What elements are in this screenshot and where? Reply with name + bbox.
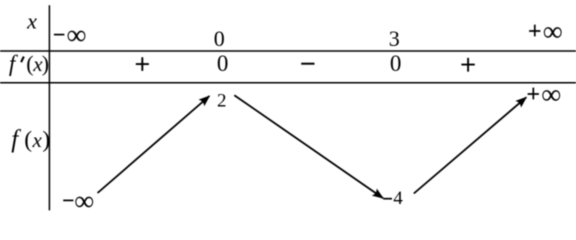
svg-text:f: f [9, 51, 19, 76]
svg-text:∞: ∞ [74, 186, 94, 215]
plus of +infinity (row 3 top right) [528, 88, 539, 100]
sign - (row 2, second interval) [301, 63, 314, 65]
svg-text:∞: ∞ [67, 20, 87, 51]
svg-text:0: 0 [217, 51, 229, 76]
label f(x) (row 3 header) [11, 126, 50, 153]
svg-text:0: 0 [390, 51, 402, 76]
minus of -infinity (row 1 left) [54, 34, 65, 36]
svg-text:2: 2 [217, 90, 227, 111]
horizontal separator line 2 (below f'(x) row) [0, 82, 576, 84]
label f'(x) (row 2 header) [9, 51, 49, 76]
minus of -infinity (row 3 bottom left) [63, 199, 73, 201]
decreasing arrow from 2 to -4 [234, 95, 383, 198]
increasing arrow from -infinity to 2 [98, 96, 210, 193]
svg-text:f: f [11, 126, 21, 153]
svg-text:x: x [32, 128, 43, 152]
svg-text:x: x [26, 9, 37, 34]
svg-text:0: 0 [214, 26, 225, 51]
plus of +infinity (row 1 right) [529, 25, 540, 37]
horizontal separator line 1 (below x row) [0, 50, 576, 52]
sign + (row 2, first interval) [136, 57, 149, 71]
svg-text:4: 4 [393, 188, 403, 209]
svg-text:(: ( [24, 127, 32, 153]
increasing arrow from -4 to +infinity [414, 97, 527, 193]
svg-text:∞: ∞ [543, 16, 563, 47]
svg-text:): ) [42, 127, 50, 153]
sign + (row 2, third interval) [461, 58, 474, 72]
vertical header separator line [48, 5, 50, 210]
svg-text:): ) [42, 51, 49, 76]
minus of -4 (local minimum value) [383, 198, 392, 200]
svg-text:∞: ∞ [541, 80, 561, 111]
svg-text:3: 3 [389, 26, 400, 51]
